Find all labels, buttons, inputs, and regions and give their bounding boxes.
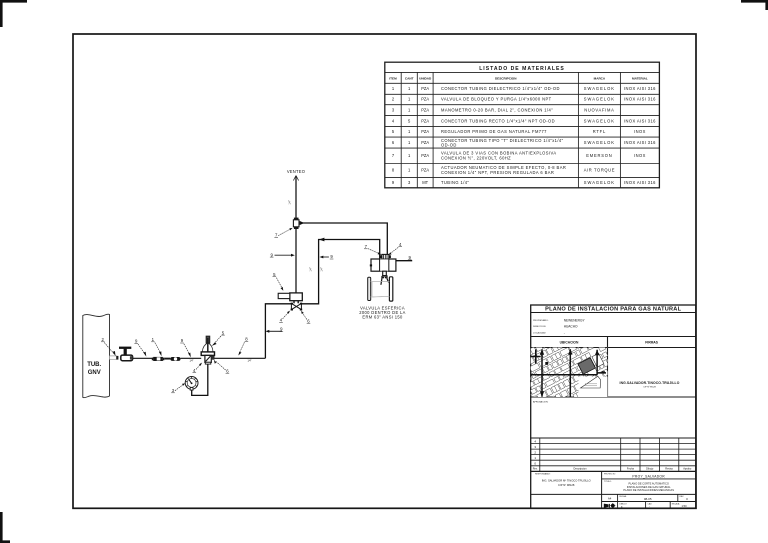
- ball valve left flange: [368, 277, 371, 300]
- svg-text:PZA: PZA: [421, 118, 429, 123]
- svg-text:ING. SALVADOR Mº TINOCO TRUJIL: ING. SALVADOR Mº TINOCO TRUJILLO: [542, 478, 591, 482]
- pipe stub tube from main: [110, 356, 117, 359]
- svg-text:CIP Nº 98128: CIP Nº 98128: [643, 386, 656, 389]
- svg-text:ERM 63" ANSI 150: ERM 63" ANSI 150: [362, 314, 403, 319]
- materials table column headers: [389, 77, 648, 81]
- aprobacion label: [533, 400, 549, 403]
- svg-text:SWAGELOK: SWAGELOK: [584, 180, 615, 185]
- svg-text:RTFL: RTFL: [593, 129, 606, 134]
- svg-text:1/4": 1/4": [289, 200, 292, 204]
- svg-text:REGULADOR PRIMO DE GAS NATURAL: REGULADOR PRIMO DE GAS NATURAL FM777: [441, 129, 547, 134]
- svg-text:CANT: CANT: [405, 77, 414, 81]
- svg-text:RESPONSABLE:: RESPONSABLE:: [535, 473, 551, 476]
- valve mounting bracket: [381, 276, 389, 285]
- pipe label TUB. GNV: [87, 362, 101, 376]
- svg-text:Dibujo: Dibujo: [646, 468, 654, 471]
- regulator item5 flange plate: [201, 352, 214, 356]
- regulator item5 body: [205, 355, 215, 364]
- svg-text:-: -: [564, 331, 565, 335]
- svg-text:MANOMETRO 0-20 BAR, DIAL 2", C: MANOMETRO 0-20 BAR, DIAL 2", CONEXION 1/…: [441, 107, 553, 112]
- svg-text:AIR TORQUE: AIR TORQUE: [584, 168, 615, 173]
- materials table row 3: [392, 107, 615, 112]
- svg-text:OD-OD: OD-OD: [441, 142, 457, 147]
- flow arrow on mid run: [319, 238, 325, 242]
- materials table row 4: [392, 118, 656, 123]
- leader 9e: [320, 254, 334, 259]
- vent arrow head: [293, 176, 298, 181]
- svg-text:PLANO DE CORTE AUTOMATICO: PLANO DE CORTE AUTOMATICO: [628, 481, 669, 485]
- svg-text:PZA: PZA: [421, 153, 429, 158]
- leader 6b: [301, 311, 310, 324]
- air supply line: [396, 260, 412, 262]
- svg-text:CONEXION ½", 220VOLT, 60HZ: CONEXION ½", 220VOLT, 60HZ: [441, 156, 511, 161]
- svg-text:MATERIAL: MATERIAL: [632, 77, 648, 81]
- svg-text:VENTEO: VENTEO: [287, 169, 305, 174]
- svg-text:INOX AISI 316: INOX AISI 316: [624, 140, 656, 145]
- ball valve body lightly drawn: [371, 281, 390, 297]
- svg-text:CIP Nº 98128: CIP Nº 98128: [558, 483, 575, 487]
- signature scribble: [620, 381, 680, 389]
- title text: [545, 307, 681, 313]
- svg-text:ESCALA:: ESCALA:: [672, 502, 680, 505]
- leader 9d vent line: [270, 252, 295, 257]
- materials table row 9: [392, 180, 656, 185]
- bottom info rows grid: [602, 494, 696, 508]
- svg-text:Reviso: Reviso: [665, 468, 673, 471]
- materials table grid: [385, 62, 660, 188]
- svg-text:Aprobo: Aprobo: [683, 468, 692, 471]
- svg-text:APROBACION:: APROBACION:: [533, 400, 549, 403]
- sheet border frame: [73, 34, 696, 508]
- second stage regulator side can: [278, 293, 290, 298]
- leader 4b: [279, 311, 290, 323]
- vent pipe: [289, 177, 296, 219]
- leader 5b: [273, 272, 284, 291]
- svg-text:PROYECTO:: PROYECTO:: [604, 473, 616, 475]
- materials table row 2: [392, 97, 656, 102]
- svg-text:LISTADO DE MATERIALES: LISTADO DE MATERIALES: [479, 66, 565, 72]
- svg-text:EMERSON: EMERSON: [586, 153, 612, 158]
- pipe segment regulator to riser: [215, 358, 266, 362]
- svg-text:PZA: PZA: [421, 140, 429, 145]
- riser pipe up to mid level: [265, 304, 291, 359]
- ball valve caption: [359, 306, 405, 320]
- ball valve right flange: [389, 277, 392, 301]
- svg-text:ING.SALVADOR.TINOCO.TRUJILLO: ING.SALVADOR.TINOCO.TRUJILLO: [620, 381, 680, 385]
- actuator center body: [380, 259, 389, 271]
- second stage regulator body: [290, 293, 303, 301]
- valve V2 inlet port: [116, 356, 118, 360]
- svg-text:PLANO DE INSTALACION PARA GAS: PLANO DE INSTALACION PARA GAS NATURAL: [545, 307, 681, 313]
- union fitting item1: [152, 357, 165, 361]
- actuator item8 right cylinder: [389, 259, 396, 271]
- leader 4c solenoid: [388, 242, 402, 255]
- title block frame: [531, 305, 696, 508]
- leader 9b: [180, 338, 193, 362]
- leader 9a: [134, 339, 146, 357]
- flow arrow on top run: [300, 221, 305, 225]
- nipple between fittings: [164, 358, 170, 360]
- svg-text:TITULO:: TITULO:: [604, 481, 612, 483]
- svg-text:SWAGELOK: SWAGELOK: [584, 140, 615, 145]
- svg-text:CONEXION 1/4" NPT, PRESION REG: CONEXION 1/4" NPT, PRESION REGULADA 6 BA…: [441, 170, 554, 175]
- svg-text:PZA: PZA: [421, 97, 429, 102]
- svg-text:NUOVAFIMA: NUOVAFIMA: [584, 107, 614, 112]
- svg-text:PZA: PZA: [421, 168, 429, 173]
- svg-text:TUBING 1/4": TUBING 1/4": [441, 180, 469, 185]
- pipe from bowtie to second riser: [301, 240, 379, 304]
- svg-text:TUB.: TUB.: [87, 362, 101, 368]
- leader 4 regulator: [193, 363, 203, 373]
- svg-text:1/4": 1/4": [247, 361, 251, 363]
- riser labels 1/4: [309, 267, 323, 271]
- leader 5 regulator: [212, 330, 225, 346]
- svg-text:VALVULA DE BLOQUEO Y PURGA 1/4: VALVULA DE BLOQUEO Y PURGA 1/4"x6000 NPT: [441, 97, 552, 102]
- svg-text:INOX AISI 316: INOX AISI 316: [624, 118, 656, 123]
- leader 6 regulator: [214, 360, 229, 374]
- materials table row 5: [392, 129, 646, 134]
- svg-text:1:50: 1:50: [681, 504, 687, 508]
- svg-text:PROPIETARIO:: PROPIETARIO:: [533, 319, 549, 322]
- leader 9f: [408, 255, 412, 260]
- svg-text:INOX: INOX: [634, 129, 646, 134]
- svg-text:INOX AISI 316: INOX AISI 316: [624, 86, 656, 91]
- engineer cell: [531, 471, 696, 508]
- svg-text:SWAGELOK: SWAGELOK: [584, 118, 615, 123]
- gas main pipe TUB.GNV: [83, 314, 110, 398]
- drawing description cell: [604, 481, 674, 492]
- svg-text:PZA: PZA: [421, 129, 429, 134]
- svg-text:UNIDAD: UNIDAD: [419, 77, 432, 81]
- svg-text:SWAGELOK: SWAGELOK: [584, 86, 615, 91]
- leader 3 gauge: [171, 383, 185, 393]
- svg-text:HUACHO: HUACHO: [564, 324, 578, 328]
- revision table: [531, 438, 696, 471]
- svg-text:PLANO DE INSTALACIONES MECANIC: PLANO DE INSTALACIONES MECANICAS: [623, 488, 674, 492]
- svg-text:INOX: INOX: [634, 153, 646, 158]
- svg-text:MARCA: MARCA: [594, 77, 606, 81]
- paper size cell: [608, 495, 688, 501]
- vent line down to regulator item5b: [295, 229, 297, 293]
- pipe segment valve to fitting1: [133, 357, 154, 359]
- svg-text:INOX AISI 316: INOX AISI 316: [624, 180, 656, 185]
- svg-text:GNV: GNV: [88, 370, 101, 376]
- actuator item8 left cylinder: [370, 259, 380, 271]
- svg-text:Descripcion: Descripcion: [573, 468, 587, 471]
- vent line label VENTEO: [287, 169, 305, 174]
- bottom small cells: [620, 502, 688, 508]
- top run tee to solenoid drop: [300, 223, 388, 254]
- svg-text:08-05: 08-05: [644, 497, 652, 501]
- corner mark bottom-left: [1, 512, 10, 542]
- svg-text:Fecha: Fecha: [627, 468, 635, 471]
- materials table title: [479, 66, 565, 72]
- svg-text:CONECTOR TUBING RECTO 1/4"x1/4: CONECTOR TUBING RECTO 1/4"x1/4" NPT OD-O…: [441, 118, 555, 123]
- svg-text:FECHA:: FECHA:: [620, 495, 627, 498]
- solenoid valve item7: [380, 254, 391, 259]
- svg-text:NEWENERGY: NEWENERGY: [564, 318, 586, 322]
- corner mark top-left: [1, 1, 27, 27]
- materials table row 8: [392, 165, 615, 175]
- leader 7b solenoid: [364, 244, 382, 255]
- valve stubs under regulator: [293, 301, 299, 304]
- revision numbers: [534, 439, 536, 465]
- projection symbol: [604, 503, 616, 508]
- leader 2: [101, 337, 116, 356]
- corner mark top-right: [741, 1, 767, 10]
- svg-text:PZA: PZA: [421, 107, 429, 112]
- svg-text:PROY_SALVADOR: PROY_SALVADOR: [632, 475, 665, 479]
- svg-text:1/4": 1/4": [320, 267, 323, 271]
- riser corner leader 9c: [266, 327, 284, 333]
- svg-text:1/4": 1/4": [309, 267, 312, 271]
- svg-text:UBICACION: UBICACION: [560, 341, 579, 345]
- svg-text:DESCRIPCION: DESCRIPCION: [495, 77, 517, 81]
- leader 1: [151, 337, 161, 356]
- tee fitting item6: [293, 218, 299, 229]
- location map: [481, 298, 666, 446]
- owner info rows: [533, 319, 549, 335]
- svg-text:REV:: REV:: [680, 496, 685, 498]
- svg-text:A4: A4: [608, 496, 612, 500]
- leader 7 tee: [274, 228, 292, 238]
- actuator stem: [383, 271, 387, 275]
- ubicacion firmas headers: [560, 341, 659, 345]
- svg-text:SWAGELOK: SWAGELOK: [584, 97, 615, 102]
- svg-text:DIRECCION:: DIRECCION:: [533, 326, 546, 328]
- pressure gauge item3: [185, 377, 198, 391]
- block valve item2 body: [121, 355, 133, 361]
- regulator item5 spring dome: [202, 338, 213, 362]
- project name cell: [602, 473, 696, 479]
- svg-text:ITEM: ITEM: [389, 77, 397, 81]
- svg-text:MT: MT: [422, 180, 428, 185]
- materials table row 6: [392, 138, 656, 148]
- svg-text:CONECTOR TUBING TIPO "T" DIELE: CONECTOR TUBING TIPO "T" DIELECTRICO 1/4…: [441, 138, 564, 143]
- svg-text:FIRMAS: FIRMAS: [645, 341, 658, 345]
- svg-text:PZA: PZA: [421, 86, 429, 91]
- block valve item2 T-handle: [119, 347, 131, 356]
- union fitting item4: [170, 357, 180, 361]
- svg-text:CONECTOR TUBING DIELECTRICO 1/: CONECTOR TUBING DIELECTRICO 1/4"x1/4" OD…: [441, 86, 560, 91]
- materials table row 1: [392, 86, 656, 91]
- gauge drop line: [192, 364, 208, 395]
- revision header row: [533, 468, 692, 471]
- svg-text:Rev.: Rev.: [533, 468, 538, 471]
- svg-text:LOCALIDAD:: LOCALIDAD:: [533, 332, 546, 335]
- pipe segment fitting2 to regulator: [181, 357, 202, 359]
- leader 8 tubing: [238, 337, 248, 356]
- svg-text:1/4": 1/4": [189, 360, 193, 362]
- svg-text:INOX AISI 316: INOX AISI 316: [624, 97, 656, 102]
- materials table row 7: [392, 151, 646, 161]
- bowtie valve under regulator: [291, 303, 303, 311]
- regulator item5 knob: [206, 336, 210, 343]
